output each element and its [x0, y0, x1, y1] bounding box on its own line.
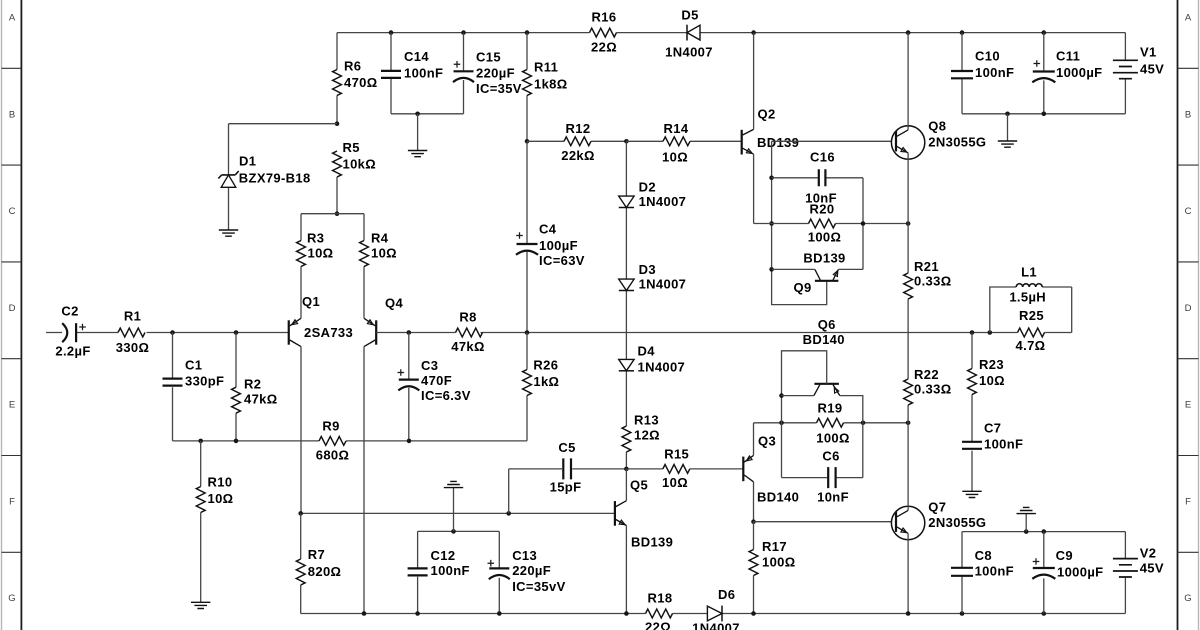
- wire V2 column: [1124, 532, 1126, 614]
- wire R17 column: [753, 522, 755, 614]
- svg-text:E: E: [9, 400, 15, 411]
- wire Q4 base / output rail: [376, 332, 1071, 334]
- junction C14 on +V rail: [389, 30, 394, 35]
- svg-text:R3: R3: [307, 231, 324, 246]
- junction Q7 emitter bottom: [906, 611, 911, 616]
- resistor R2 47k: [232, 387, 241, 413]
- wire Q6 collector run: [782, 395, 814, 397]
- junction R17 bottom / D6 right: [751, 611, 756, 616]
- junction Q6 emitter leg on R19 wire: [861, 421, 866, 426]
- svg-text:R10: R10: [208, 475, 233, 490]
- wire input line: [46, 332, 289, 334]
- plus sign C2: [79, 324, 86, 331]
- svg-text:2SA733: 2SA733: [304, 325, 353, 340]
- capacitor C13 220uF polar: [489, 567, 509, 569]
- svg-text:C: C: [1185, 206, 1192, 217]
- wire R12 run: [527, 140, 626, 142]
- svg-text:10nF: 10nF: [817, 489, 849, 504]
- wire R14 run: [626, 140, 741, 142]
- svg-text:D5: D5: [681, 8, 698, 23]
- svg-text:C: C: [9, 206, 16, 217]
- svg-text:C15: C15: [476, 50, 501, 65]
- wire C13 column: [498, 531, 500, 613]
- wire Q9 collector run: [772, 268, 815, 270]
- svg-text:100nF: 100nF: [975, 564, 1014, 579]
- junction Q6 left leg on R19 wire: [779, 421, 784, 426]
- transistor Q3 BD140: [743, 455, 753, 481]
- svg-text:BD139: BD139: [631, 534, 673, 549]
- resistor R5 10k: [333, 151, 342, 177]
- resistor R22 0.33ohm: [904, 379, 913, 405]
- capacitor C16 10nF: [819, 169, 826, 186]
- transistor Q7 2N3055G: [891, 506, 924, 539]
- junction R13/C5/R15/Q5 node: [624, 467, 629, 472]
- capacitor C15 220uF polar: [454, 70, 474, 72]
- svg-text:100nF: 100nF: [431, 563, 470, 578]
- svg-text:4.7Ω: 4.7Ω: [1016, 338, 1046, 353]
- svg-text:C12: C12: [431, 548, 456, 563]
- wire Q7 emitter to bottom rail: [907, 533, 909, 613]
- svg-text:330Ω: 330Ω: [116, 340, 150, 355]
- svg-text:R2: R2: [244, 377, 261, 392]
- diode D4 1N4007: [619, 359, 634, 370]
- wire R3 column to Q1 emitter: [300, 214, 302, 319]
- svg-text:R13: R13: [634, 413, 659, 428]
- svg-text:R7: R7: [308, 547, 325, 562]
- junction ground stem V1 group: [1005, 112, 1010, 117]
- resistor R8 47k: [456, 328, 483, 337]
- svg-text:D6: D6: [718, 587, 735, 602]
- capacitor C10 100nF: [951, 71, 973, 78]
- svg-text:L1: L1: [1021, 264, 1037, 279]
- svg-text:C7: C7: [984, 420, 1001, 435]
- svg-text:R1: R1: [124, 309, 141, 324]
- junction C9 top: [1042, 529, 1047, 534]
- svg-text:1N4007: 1N4007: [665, 45, 713, 60]
- resistor R12 22k: [564, 137, 591, 146]
- wire R2 column: [235, 333, 237, 441]
- plus sign C9: [1033, 558, 1040, 565]
- svg-text:D3: D3: [639, 262, 656, 277]
- svg-text:Q9: Q9: [794, 280, 812, 295]
- resistor R17 100ohm: [749, 550, 758, 576]
- plus sign C15: [454, 61, 461, 68]
- svg-text:R17: R17: [762, 539, 787, 554]
- svg-text:10Ω: 10Ω: [979, 373, 1005, 388]
- svg-text:R26: R26: [533, 358, 558, 373]
- junction R6/R5/D1 node: [335, 121, 340, 126]
- svg-text:BD139: BD139: [803, 251, 845, 266]
- svg-text:1k8Ω: 1k8Ω: [534, 77, 568, 92]
- junction R11 on +V rail: [525, 30, 530, 35]
- resistor R18 22ohm: [646, 609, 673, 618]
- svg-text:220µF: 220µF: [476, 66, 515, 81]
- svg-text:Q4: Q4: [385, 295, 403, 310]
- svg-text:D: D: [9, 303, 16, 314]
- junction C16 left: [769, 176, 774, 181]
- svg-text:F: F: [1185, 497, 1191, 508]
- wire Q4 collector down: [363, 347, 365, 614]
- svg-text:E: E: [1185, 400, 1191, 411]
- svg-text:R18: R18: [648, 590, 673, 605]
- wire C5 run: [509, 468, 627, 470]
- svg-text:45V: 45V: [1140, 561, 1164, 576]
- svg-text:45V: 45V: [1140, 62, 1164, 77]
- resistor R10 10ohm: [196, 487, 205, 513]
- wire D1 to R5 node: [229, 123, 338, 125]
- wire Q2 emitter down: [753, 154, 755, 223]
- resistor R19 100ohm: [817, 418, 844, 427]
- wire R9 rail (tail network): [173, 440, 528, 442]
- wire Q7 collector up: [907, 423, 909, 511]
- svg-text:1N4007: 1N4007: [692, 621, 740, 630]
- wire C5 left leg: [508, 469, 510, 514]
- svg-text:1.5µH: 1.5µH: [1009, 289, 1046, 304]
- wire C15 column: [463, 33, 465, 114]
- capacitor C12 100nF: [408, 568, 428, 575]
- svg-text:1000µF: 1000µF: [1056, 65, 1102, 80]
- resistor R23 10ohm: [968, 369, 977, 395]
- wire V2 group top: [962, 531, 1125, 533]
- wire Q1 collector to Q5 base: [301, 512, 615, 514]
- svg-text:1kΩ: 1kΩ: [533, 374, 559, 389]
- junction R8 right / R26 top: [525, 330, 530, 335]
- svg-text:820Ω: 820Ω: [308, 564, 342, 579]
- svg-text:47kΩ: 47kΩ: [244, 392, 278, 407]
- wire diode string column: [625, 141, 627, 469]
- inverted ground V2 group: [1017, 507, 1036, 513]
- svg-text:R14: R14: [664, 121, 689, 136]
- wire C14 column: [390, 33, 392, 114]
- svg-text:C2: C2: [61, 304, 78, 319]
- diode D3 1N4007: [619, 279, 634, 290]
- svg-text:47kΩ: 47kΩ: [451, 339, 485, 354]
- wire R21 to output rail: [907, 299, 909, 333]
- capacitor C2 2.2uF polar horizontal: [62, 323, 76, 342]
- junction D2 string top: [624, 139, 629, 144]
- wire R7 column: [300, 513, 302, 613]
- wire C6 run and right leg: [782, 423, 863, 478]
- svg-text:22Ω: 22Ω: [645, 620, 671, 630]
- svg-text:100nF: 100nF: [404, 66, 443, 81]
- transistor Q8 2N3055G: [891, 126, 924, 159]
- svg-text:330pF: 330pF: [185, 374, 224, 389]
- wire Q1 collector down: [300, 347, 302, 514]
- transistor Q6 BD140 rotated: [814, 384, 840, 396]
- wire C12 column: [417, 531, 419, 613]
- junction C10 on +V rail: [960, 30, 965, 35]
- wire D1 column: [228, 124, 230, 230]
- junction R10 top: [198, 439, 203, 444]
- wire R4 column to Q4 emitter: [363, 214, 365, 319]
- junction ground stem V2 group: [1024, 529, 1029, 534]
- capacitor C14 100nF: [381, 71, 401, 78]
- svg-text:10Ω: 10Ω: [662, 475, 688, 490]
- wire R11 column: [526, 33, 528, 142]
- svg-text:BD140: BD140: [757, 489, 799, 504]
- plus sign C11: [1034, 60, 1041, 67]
- junction C13 bottom: [497, 611, 502, 616]
- junction Q6 collector tie: [779, 393, 784, 398]
- plus sign C13: [488, 560, 495, 567]
- svg-text:B: B: [1185, 109, 1191, 120]
- svg-text:V1: V1: [1140, 45, 1157, 60]
- svg-text:2N3055G: 2N3055G: [928, 515, 986, 530]
- wire C9 column: [1043, 532, 1045, 614]
- wire Q9 emitter run: [838, 268, 863, 270]
- diode D5 1N4007: [687, 25, 700, 40]
- resistor R26 1k: [523, 370, 532, 396]
- svg-text:IC=63V: IC=63V: [539, 253, 585, 268]
- svg-text:2.2µF: 2.2µF: [55, 344, 90, 359]
- svg-text:IC=35vV: IC=35vV: [512, 579, 565, 594]
- capacitor C1 330pF: [163, 379, 183, 386]
- svg-text:12Ω: 12Ω: [634, 428, 660, 443]
- wire C12-C13 top: [418, 530, 500, 532]
- junction C8 bottom: [960, 611, 965, 616]
- capacitor C7 100nF: [962, 442, 982, 449]
- svg-text:22kΩ: 22kΩ: [561, 148, 595, 163]
- zener diode D1 BZX79-B18: [218, 171, 238, 187]
- capacitor C4 100uF polar: [517, 243, 538, 245]
- wire Q8 emitter to R21: [907, 153, 909, 273]
- svg-text:470F: 470F: [421, 373, 452, 388]
- wire C3 column: [408, 333, 410, 441]
- junction C11 on +V rail: [1042, 30, 1047, 35]
- wire Q3 collector down: [753, 482, 755, 522]
- wire C8 column: [961, 532, 963, 614]
- svg-text:C4: C4: [539, 222, 557, 237]
- svg-text:Q5: Q5: [630, 477, 648, 492]
- wire C16 run: [772, 177, 863, 179]
- wire R6-R5 column: [336, 33, 338, 214]
- diode D6 1N4007: [707, 606, 722, 621]
- resistor R6 470ohm: [333, 70, 342, 96]
- wire C14-C15 bottom: [391, 113, 464, 115]
- junction R2 bottom: [234, 439, 239, 444]
- svg-text:1N4007: 1N4007: [639, 194, 687, 209]
- junction C11 bottom: [1042, 112, 1047, 117]
- wire supply bottom return: [962, 113, 1125, 115]
- svg-text:Q3: Q3: [758, 433, 776, 448]
- svg-text:C11: C11: [1056, 49, 1080, 64]
- svg-text:C10: C10: [975, 49, 1000, 64]
- svg-text:C14: C14: [404, 49, 429, 64]
- junction R2 top: [234, 330, 239, 335]
- svg-text:C13: C13: [512, 548, 537, 563]
- junction C9 bottom: [1042, 611, 1047, 616]
- svg-text:BZX79-B18: BZX79-B18: [239, 171, 311, 186]
- svg-text:Q2: Q2: [758, 107, 776, 122]
- svg-text:10Ω: 10Ω: [308, 246, 334, 261]
- wire ground stem V1 group: [1007, 114, 1009, 141]
- svg-text:C3: C3: [421, 358, 438, 373]
- svg-text:V2: V2: [1140, 546, 1157, 561]
- svg-text:R9: R9: [322, 419, 339, 434]
- svg-text:BD140: BD140: [803, 332, 845, 347]
- junction R5 to R3/R4 rail: [335, 211, 340, 216]
- svg-text:R22: R22: [914, 367, 939, 382]
- capacitor C8 100nF: [951, 568, 973, 576]
- junction C16/Q9 right leg on R20 wire: [861, 221, 866, 226]
- wire Q8 collector to rail: [907, 33, 909, 130]
- ground V1 group: [998, 141, 1017, 147]
- wire R15 run: [626, 468, 743, 470]
- capacitor C11 1000uF polar: [1033, 70, 1055, 72]
- resistor R7 820ohm: [296, 559, 305, 585]
- resistor R25 4.7ohm: [1018, 328, 1045, 337]
- svg-text:100µF: 100µF: [539, 238, 578, 253]
- svg-text:10Ω: 10Ω: [371, 246, 397, 261]
- svg-text:G: G: [1184, 593, 1191, 604]
- svg-text:IC=6.3V: IC=6.3V: [421, 388, 471, 403]
- plus sign C3: [398, 369, 405, 376]
- junction R7 top: [298, 511, 303, 516]
- wire C16 right leg: [862, 178, 864, 270]
- svg-text:680Ω: 680Ω: [316, 448, 350, 463]
- wire L1 bypass loop: [990, 287, 1072, 333]
- svg-text:15pF: 15pF: [550, 479, 582, 494]
- wire C11 column: [1043, 33, 1045, 114]
- wire V1 column: [1124, 33, 1126, 114]
- svg-text:C5: C5: [558, 440, 575, 455]
- junction Q5 emitter / R18 left: [624, 611, 629, 616]
- junction mid ground stem: [451, 529, 456, 534]
- wire Q5 collector: [625, 469, 627, 501]
- svg-text:220µF: 220µF: [512, 563, 551, 578]
- svg-text:D4: D4: [638, 344, 656, 359]
- resistor R16: [590, 28, 617, 37]
- wire C4 column: [526, 141, 528, 332]
- resistor R13 12ohm: [622, 426, 631, 452]
- svg-text:F: F: [9, 497, 15, 508]
- ground below C7: [962, 491, 981, 497]
- junction R23 on output rail: [970, 330, 975, 335]
- junction C3 top: [407, 330, 412, 335]
- resistor R1 330ohm: [118, 328, 145, 337]
- junction C15 on +V rail: [461, 30, 466, 35]
- svg-text:Q6: Q6: [818, 317, 836, 332]
- svg-text:0.33Ω: 0.33Ω: [914, 381, 951, 396]
- svg-text:10Ω: 10Ω: [662, 150, 688, 165]
- ground below R10: [191, 602, 210, 608]
- wire Q6 emitter leg: [840, 396, 863, 423]
- svg-text:2N3055G: 2N3055G: [928, 134, 986, 149]
- wire Q7 base run: [754, 521, 892, 523]
- wire ground stem: [417, 114, 419, 150]
- wire Q2 node to Q8 base: [772, 140, 892, 142]
- svg-text:100Ω: 100Ω: [808, 230, 842, 245]
- capacitor C3 470F polar: [399, 379, 419, 381]
- junction Q8 emitter on R20 wire: [906, 221, 911, 226]
- junction Q2 collector on +V rail: [751, 30, 756, 35]
- capacitor C9 1000uF polar: [1033, 567, 1055, 569]
- wire +V top rail: [337, 32, 1125, 34]
- svg-text:IC=35V: IC=35V: [476, 81, 522, 96]
- wire ground stem V2 group: [1025, 514, 1027, 532]
- svg-text:R6: R6: [344, 59, 361, 74]
- svg-text:100Ω: 100Ω: [816, 430, 850, 445]
- junction Q4 collector on bottom rail: [362, 611, 367, 616]
- wire C10 column: [961, 33, 963, 114]
- capacitor C5 15pF: [563, 458, 571, 479]
- svg-text:A: A: [9, 12, 16, 23]
- junction L1 branch on output rail: [988, 330, 993, 335]
- junction C1 top: [170, 330, 175, 335]
- resistor R21 0.33ohm: [904, 273, 913, 299]
- wire Q6 base loop and left leg: [782, 351, 827, 478]
- svg-text:R15: R15: [664, 447, 689, 462]
- resistor R15 10ohm: [663, 465, 690, 474]
- resistor R20 100ohm: [809, 219, 836, 228]
- svg-text:0.33Ω: 0.33Ω: [914, 273, 951, 288]
- svg-text:R20: R20: [810, 202, 835, 217]
- junction C5 branch: [506, 511, 511, 516]
- svg-text:1000µF: 1000µF: [1057, 564, 1103, 579]
- svg-text:R21: R21: [914, 259, 939, 274]
- inductor L1 1.5uH: [1016, 284, 1042, 287]
- junction Q8 collector on +V rail: [906, 30, 911, 35]
- svg-text:R23: R23: [979, 357, 1004, 372]
- svg-text:100nF: 100nF: [975, 65, 1014, 80]
- svg-text:C1: C1: [185, 358, 202, 373]
- wire R26 column: [526, 333, 528, 441]
- svg-text:22Ω: 22Ω: [591, 40, 617, 55]
- svg-text:10Ω: 10Ω: [208, 491, 234, 506]
- svg-text:10kΩ: 10kΩ: [343, 156, 377, 171]
- svg-text:470Ω: 470Ω: [344, 75, 378, 90]
- junction C12 bottom: [415, 611, 420, 616]
- wire R3-R4 tie: [301, 213, 364, 215]
- svg-text:D2: D2: [639, 180, 656, 195]
- ground below C14/C15: [408, 151, 427, 157]
- junction C3 bottom: [407, 439, 412, 444]
- diode D2 1N4007: [619, 196, 634, 207]
- svg-text:100nF: 100nF: [984, 437, 1023, 452]
- wire R23/C7 column: [971, 333, 973, 492]
- junction Q9 collector node: [769, 267, 774, 272]
- svg-text:Q8: Q8: [928, 119, 946, 134]
- svg-text:B: B: [9, 109, 15, 120]
- svg-text:1N4007: 1N4007: [639, 277, 687, 292]
- plus sign C4: [516, 232, 523, 239]
- junction R20 left: [769, 221, 774, 226]
- svg-text:1N4007: 1N4007: [638, 360, 686, 375]
- svg-text:R12: R12: [566, 121, 591, 136]
- wire R10 column: [200, 441, 202, 602]
- ground below D1: [219, 230, 238, 236]
- wire Q3 emitter up: [753, 423, 755, 456]
- svg-text:R8: R8: [459, 310, 476, 325]
- wire C1 column: [172, 333, 174, 441]
- wire bias network left leg and Q9 base loop: [772, 141, 827, 304]
- transistor Q5 BD139: [615, 501, 627, 526]
- resistor R11 1k8: [523, 70, 532, 96]
- svg-text:R5: R5: [343, 140, 360, 155]
- battery V2 45V: [1113, 559, 1138, 577]
- svg-text:D1: D1: [239, 154, 256, 169]
- svg-text:G: G: [8, 593, 15, 604]
- resistor R3 10ohm: [297, 241, 306, 267]
- wire mid ground stem: [453, 488, 455, 531]
- wire Q2 collector to rail: [753, 33, 755, 130]
- svg-text:R19: R19: [818, 400, 843, 415]
- junction Q3/R17/Q7-base: [751, 519, 756, 524]
- svg-text:C8: C8: [975, 548, 992, 563]
- junction ground stem C14/C15: [415, 112, 420, 117]
- resistor R14 10ohm: [663, 137, 690, 146]
- resistor R9 680ohm: [319, 437, 346, 446]
